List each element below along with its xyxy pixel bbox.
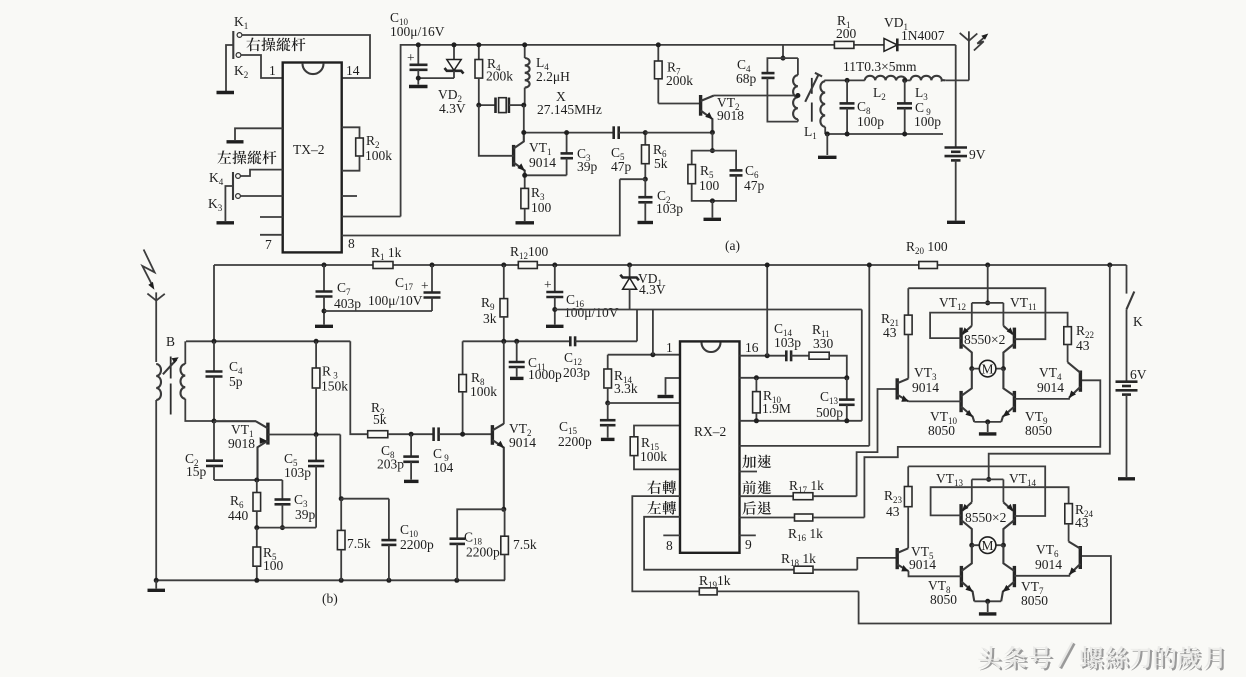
- svg-text:1N4007: 1N4007: [901, 28, 945, 43]
- diode VD2 4.3V zener: [438, 45, 466, 116]
- wire VT2 collector: [503, 341, 505, 424]
- svg-text:R23: R23: [884, 488, 903, 505]
- wire bridge2 emitter junction: [974, 599, 1001, 612]
- wire VT13 base loop: [931, 487, 1069, 515]
- svg-text:TX–2: TX–2: [293, 142, 325, 157]
- wire TX +9V top rail: [401, 45, 956, 217]
- resistor R15 100k: [630, 426, 680, 470]
- svg-text:7: 7: [265, 237, 272, 252]
- svg-text:1: 1: [269, 63, 276, 78]
- transformer B secondary: [181, 341, 256, 421]
- resistor R22 43: [1064, 323, 1094, 362]
- transistor VT12 8550: [961, 326, 972, 369]
- svg-text:RX–2: RX–2: [694, 424, 726, 439]
- resistor R14 3.3k: [604, 310, 680, 406]
- wire L1 bottom row: [825, 132, 943, 156]
- capacitor C4 5p: [206, 341, 244, 423]
- svg-text:6V: 6V: [1130, 367, 1147, 382]
- svg-text:1: 1: [666, 340, 673, 355]
- wire K2 to pin1: [241, 55, 283, 78]
- svg-text:9014: 9014: [529, 155, 556, 170]
- node TX osc junction: [521, 103, 526, 108]
- wire VT4 emitter to VT9 base: [1014, 398, 1069, 399]
- node VT2 emitter junction: [501, 507, 506, 512]
- svg-text:500p: 500p: [816, 405, 843, 420]
- capacitor C16 100u/10V: [544, 263, 619, 325]
- resistor R5 100: [253, 528, 284, 581]
- transistor VT1 9018: [214, 421, 268, 480]
- transistor VT10 8050: [961, 369, 974, 422]
- svg-text:4.3V: 4.3V: [639, 282, 666, 297]
- wire mid row 341: [463, 339, 571, 344]
- svg-text:M: M: [982, 538, 994, 553]
- resistor R8 100k: [459, 341, 497, 436]
- capacitor C10 2200p: [341, 499, 434, 581]
- capacitor C4 68p + tank loop: [736, 45, 798, 122]
- wire TX drive row: [524, 132, 614, 134]
- wire VT1 base row: [268, 432, 340, 499]
- wire bridge2 feed: [972, 263, 1113, 503]
- svg-text:3.3k: 3.3k: [614, 381, 638, 396]
- svg-text:L1: L1: [804, 124, 817, 141]
- wire R17 to VT3 base: [857, 389, 898, 496]
- svg-text:2200p: 2200p: [400, 537, 434, 552]
- svg-text:1000p: 1000p: [528, 367, 562, 382]
- capacitor C11 1000p: [509, 341, 562, 382]
- svg-text:R1 1k: R1 1k: [371, 245, 402, 262]
- svg-text:R18 1k: R18 1k: [781, 551, 816, 568]
- svg-text:103p: 103p: [656, 201, 683, 216]
- wire R16 to VT4 base: [864, 380, 1100, 517]
- capacitor C17 100u/10V: [368, 263, 441, 312]
- resistor R20 100: [906, 239, 948, 269]
- wire RX left rail: [213, 265, 215, 341]
- capacitor C3 39p: [275, 480, 316, 530]
- svg-text:C17: C17: [395, 275, 414, 292]
- capacitor C7 403p: [316, 263, 362, 325]
- resistor R18 1k: [781, 551, 857, 573]
- svg-text:100k: 100k: [365, 148, 392, 163]
- capacitor C10 100u/16V: [390, 10, 445, 85]
- svg-text:47p: 47p: [744, 178, 765, 193]
- svg-text:43: 43: [1076, 338, 1090, 353]
- ground C10: [409, 85, 428, 88]
- switch K1: [233, 14, 248, 80]
- wire C2 to emitter junction: [214, 479, 282, 481]
- capacitor C8 100p: [840, 78, 885, 137]
- wire bridge1 feed: [972, 263, 1004, 326]
- capacitor C13 500p: [816, 378, 855, 421]
- svg-text:(b): (b): [322, 591, 338, 606]
- capacitor C8 203p: [377, 432, 419, 480]
- svg-text:11T0.3×5mm: 11T0.3×5mm: [843, 59, 917, 74]
- resistor R17 1k forward: [740, 478, 857, 500]
- resistor R11 330: [809, 322, 847, 378]
- transistor VT14 8550: [1003, 502, 1014, 545]
- svg-text:9014: 9014: [912, 380, 939, 395]
- svg-text:K2: K2: [234, 63, 248, 80]
- svg-text:VT14: VT14: [1009, 471, 1037, 488]
- capacitor C5 47p: [611, 126, 645, 174]
- resistor R1 200: [834, 13, 856, 48]
- node TX rail dots: [416, 42, 661, 80]
- svg-text:330: 330: [813, 336, 834, 351]
- svg-text:100μ/10V: 100μ/10V: [564, 305, 619, 320]
- svg-text:K: K: [1133, 314, 1143, 329]
- label right turn: [647, 480, 676, 494]
- svg-text:3k: 3k: [483, 311, 497, 326]
- svg-text:7.5k: 7.5k: [513, 537, 537, 552]
- label left joystick: [216, 162, 218, 164]
- svg-text:5k: 5k: [654, 156, 668, 171]
- resistor 7.5k left: [337, 496, 370, 580]
- node pin9 label: [740, 535, 756, 552]
- svg-text:100μ/10V: 100μ/10V: [368, 293, 423, 308]
- transistor VT9 8050: [1001, 369, 1014, 422]
- svg-text:8550×2: 8550×2: [964, 332, 1005, 347]
- svg-text:VT12: VT12: [939, 295, 966, 312]
- svg-text:8050: 8050: [928, 423, 955, 438]
- svg-text:103p: 103p: [774, 335, 801, 350]
- resistor R21 43: [881, 288, 912, 378]
- transistor VT7 8050: [1001, 545, 1014, 601]
- wire RX main rail: [214, 264, 1127, 266]
- resistor 7.5k right: [501, 509, 537, 580]
- svg-text:150k: 150k: [321, 379, 348, 394]
- capacitor C9 100p: [897, 78, 941, 137]
- capacitor C18 2200p: [450, 530, 501, 581]
- transistor VT2 9014: [492, 421, 536, 509]
- wire K4 to pin: [241, 170, 283, 176]
- svg-text:9: 9: [745, 537, 752, 552]
- wire L1 tuning trimmer: [805, 73, 822, 102]
- inductor L3: [906, 76, 969, 102]
- svg-text:440: 440: [228, 508, 249, 523]
- wire C7 C17 bottom: [324, 310, 432, 312]
- battery 9V: [945, 80, 986, 220]
- svg-text:C7: C7: [337, 280, 351, 297]
- wire emitter bottom row: [254, 525, 316, 530]
- svg-text:L2: L2: [873, 85, 886, 102]
- svg-text:K3: K3: [208, 196, 223, 213]
- svg-text:9014: 9014: [509, 435, 536, 450]
- label accelerate: [742, 455, 771, 469]
- label right joystick text: [246, 38, 305, 52]
- svg-text:100p: 100p: [857, 114, 884, 129]
- transformer B primary: [156, 364, 161, 400]
- svg-text:5k: 5k: [373, 412, 387, 427]
- wire emitter to C18: [457, 509, 504, 538]
- ground RX bottom rail: [148, 580, 166, 590]
- svg-text:R9: R9: [481, 295, 495, 312]
- svg-text:39p: 39p: [295, 507, 316, 522]
- svg-text:16: 16: [745, 340, 759, 355]
- capacitor C15 2200p: [558, 403, 616, 449]
- diode VD1 4.3V zener: [620, 263, 666, 310]
- svg-text:R17 1k: R17 1k: [789, 478, 824, 495]
- ground bridge1: [979, 432, 997, 435]
- inductor L2 100p tank: [847, 76, 906, 102]
- wire RX bottom rail: [154, 578, 505, 583]
- capacitor C5 103p: [284, 435, 324, 528]
- wire pin16 row: [740, 263, 787, 359]
- svg-text:8: 8: [348, 236, 355, 251]
- svg-text:9014: 9014: [909, 557, 936, 572]
- wire K1 to pin14: [242, 35, 370, 78]
- wire accelerate stub: [740, 471, 758, 473]
- svg-text:2.2μH: 2.2μH: [536, 69, 570, 84]
- ground C2: [638, 221, 654, 224]
- svg-text:C13: C13: [820, 389, 839, 406]
- resistor R1 1k: [371, 245, 402, 269]
- wire 4.3V rail: [555, 309, 862, 311]
- wire tank row B: [186, 339, 350, 344]
- svg-text:9018: 9018: [717, 108, 744, 123]
- transistor VT8 8050: [961, 545, 974, 601]
- svg-text:100: 100: [263, 558, 284, 573]
- wire TX-2 right stub: [342, 195, 357, 197]
- resistor R24 43: [1065, 502, 1094, 542]
- capacitor C12 203p: [563, 310, 637, 381]
- switch K3 K4: [208, 170, 240, 213]
- svg-text:100p: 100p: [914, 114, 941, 129]
- resistor R12 100: [510, 244, 549, 269]
- ground bridge2: [979, 612, 997, 615]
- svg-text:R12100: R12100: [510, 244, 549, 261]
- node pin8 label: [663, 535, 680, 553]
- wire VT2 collector to tank: [714, 95, 798, 97]
- svg-text:403p: 403p: [334, 296, 361, 311]
- resistor R16 1k backward: [740, 514, 865, 543]
- svg-text:68p: 68p: [736, 71, 757, 86]
- svg-text:B: B: [166, 334, 175, 349]
- antenna TX: [956, 31, 989, 80]
- svg-text:100μ/16V: 100μ/16V: [390, 24, 445, 39]
- svg-text:+: +: [544, 277, 552, 292]
- label forward: [743, 481, 772, 495]
- wire VT11 base loop: [908, 288, 1045, 339]
- ground R3: [516, 221, 535, 224]
- ground C7: [315, 325, 333, 328]
- svg-text:8550×2: 8550×2: [965, 510, 1006, 525]
- battery 6V: [1116, 367, 1147, 477]
- motor M1: [969, 360, 1006, 377]
- svg-text:47p: 47p: [611, 159, 632, 174]
- svg-text:(a): (a): [725, 238, 740, 253]
- ground C16: [546, 325, 564, 328]
- resistor R7 200k: [655, 45, 694, 104]
- ground C8: [404, 480, 419, 483]
- inductor L4 2.2uH: [525, 45, 570, 105]
- capacitor C9 104: [433, 427, 492, 475]
- wire R6 bottom to pin8 row: [620, 178, 646, 180]
- transistor VT2 9018: [701, 95, 745, 132]
- svg-text:14: 14: [346, 63, 360, 78]
- label left joystick text: [217, 151, 276, 165]
- resistor R6 5k: [642, 133, 668, 180]
- wire pin14 row to 4.3V: [740, 310, 862, 424]
- svg-text:K4: K4: [209, 170, 224, 187]
- ground L1: [818, 156, 837, 159]
- svg-text:2200p: 2200p: [466, 545, 500, 560]
- transistor VT6 9014: [1035, 542, 1080, 575]
- svg-text:4.3V: 4.3V: [439, 101, 466, 116]
- resistor R23 43: [884, 466, 912, 548]
- svg-text:R191k: R191k: [699, 573, 731, 590]
- svg-text:8050: 8050: [1025, 423, 1052, 438]
- svg-text:200k: 200k: [666, 73, 693, 88]
- motor M2: [969, 537, 1006, 554]
- wire B core dashes: [170, 357, 172, 415]
- resistor R6 440: [228, 480, 261, 528]
- svg-text:103p: 103p: [284, 465, 311, 480]
- wire VT6 emitter to VT7 base: [1014, 575, 1069, 576]
- svg-text:200: 200: [836, 26, 857, 41]
- svg-text:7.5k: 7.5k: [347, 536, 371, 551]
- resistor R2 100k: [342, 127, 393, 170]
- svg-text:43: 43: [883, 325, 897, 340]
- svg-text:15p: 15p: [186, 464, 207, 479]
- resistor R3 100: [521, 175, 552, 221]
- svg-text:200k: 200k: [486, 69, 513, 84]
- svg-text:2200p: 2200p: [558, 434, 592, 449]
- svg-text:100: 100: [699, 178, 720, 193]
- ground R5C6: [704, 198, 722, 219]
- wire VT14 base loop: [908, 466, 1045, 516]
- svg-text:100: 100: [531, 200, 552, 215]
- svg-text:5p: 5p: [229, 374, 243, 389]
- svg-text:100k: 100k: [470, 384, 497, 399]
- wire R7 to VT2 base: [658, 103, 700, 105]
- wire VT3 emitter to VT10 base: [909, 400, 962, 402]
- wire C10 VD2: [418, 77, 454, 79]
- resistor R5 100: [688, 151, 720, 201]
- wire TX-2 unused left stubs: [260, 217, 283, 235]
- svg-text:R16 1k: R16 1k: [788, 526, 823, 543]
- ground battery 6V: [1118, 477, 1135, 480]
- svg-text:27.145MHz: 27.145MHz: [537, 102, 602, 117]
- svg-text:100k: 100k: [640, 449, 667, 464]
- resistor R19 1k: [699, 573, 859, 595]
- transistor VT5 9014: [897, 544, 936, 572]
- wire TX-2 pin8 feedback: [342, 179, 620, 235]
- ground switch K1K2 common: [217, 45, 235, 93]
- transistor VT13 8550: [961, 502, 972, 545]
- svg-text:203p: 203p: [377, 457, 404, 472]
- transistor VT4 9014: [1037, 362, 1080, 398]
- wire emitter row to C3: [525, 174, 567, 176]
- svg-text:8050: 8050: [1021, 593, 1048, 608]
- watermark toutiao: [978, 642, 1225, 671]
- wire L1 core dashes: [811, 78, 813, 122]
- svg-text:9014: 9014: [1035, 557, 1062, 572]
- ground RX-2 pin3: [658, 378, 681, 397]
- svg-text:43: 43: [886, 504, 900, 519]
- svg-text:M: M: [982, 362, 994, 377]
- ground battery 9V: [947, 221, 965, 224]
- resistor R9 3k: [481, 263, 508, 342]
- wire B tuning arrow: [163, 357, 179, 374]
- svg-text:+: +: [421, 278, 429, 293]
- svg-text:39p: 39p: [577, 159, 598, 174]
- label backward: [742, 501, 771, 515]
- ground TX-2 left pin: [227, 128, 283, 142]
- svg-text:8: 8: [666, 538, 673, 553]
- resistor R4 200k: [475, 45, 513, 105]
- wire bridge1 emitter junction: [974, 419, 1001, 432]
- capacitor C14 103p: [774, 321, 809, 361]
- wire R2 left branch: [350, 341, 367, 434]
- wire RX-2 Vcc pin to rail: [740, 263, 872, 446]
- transistor VT1 9014: [479, 105, 556, 175]
- wire VT5 emitter to VT8 base: [909, 571, 962, 576]
- svg-text:203p: 203p: [563, 365, 590, 380]
- svg-text:VT11: VT11: [1010, 295, 1037, 312]
- svg-text:8050: 8050: [930, 592, 957, 607]
- diode VD1 1N4007: [884, 15, 945, 51]
- wire right-turn pin to R19: [632, 496, 699, 591]
- transistor VT3 9014: [897, 365, 939, 402]
- wire TX-2 pin to +9V rail: [342, 216, 401, 218]
- switch K: [1127, 265, 1144, 381]
- inductor L1 secondary coil: [804, 80, 847, 141]
- inductor L1 primary coil: [793, 58, 800, 122]
- capacitor C2 15p: [185, 421, 223, 480]
- wire pin15 row: [740, 375, 850, 380]
- wire R18 to VT5 base: [857, 558, 897, 570]
- svg-text:9018: 9018: [228, 436, 255, 451]
- transistor VT11 8550: [1003, 326, 1014, 369]
- IC TX-2: [283, 63, 342, 253]
- wire antenna down: [155, 400, 157, 580]
- svg-text:9014: 9014: [1037, 380, 1064, 395]
- resistor R3 150k: [312, 341, 348, 434]
- capacitor C3 39p: [561, 133, 598, 176]
- capacitor C2 103p: [638, 179, 683, 221]
- ground K3K4 common: [217, 186, 235, 223]
- svg-text:104: 104: [433, 460, 454, 475]
- svg-text:+: +: [407, 50, 415, 65]
- IC RX-2: [680, 341, 740, 552]
- label right joystick: [245, 49, 247, 51]
- antenna RX: [142, 250, 164, 363]
- wire VT12 base loop: [930, 313, 1068, 339]
- wire R19 to VT6 base: [859, 556, 1111, 624]
- svg-text:R20 100: R20 100: [906, 239, 948, 256]
- wire VT2 emitter junction: [645, 132, 712, 134]
- label left turn: [647, 501, 676, 515]
- resistor R2 5k: [368, 400, 434, 438]
- crystal X 27.145MHz: [479, 89, 602, 117]
- wire K3 to pin: [241, 195, 283, 197]
- resistor R10 1.9M: [753, 378, 791, 421]
- svg-text:1.9M: 1.9M: [762, 401, 791, 416]
- svg-text:9V: 9V: [969, 147, 986, 162]
- svg-text:VT13: VT13: [936, 471, 964, 488]
- svg-text:43: 43: [1075, 515, 1089, 530]
- wire left-turn pin to R18: [644, 517, 794, 570]
- capacitor C6 47p: [712, 151, 764, 201]
- svg-text:K1: K1: [234, 14, 248, 31]
